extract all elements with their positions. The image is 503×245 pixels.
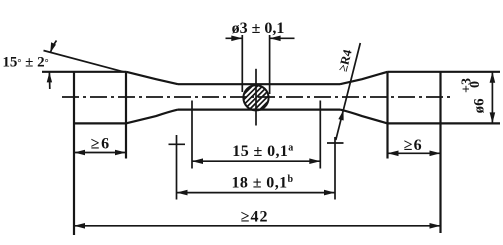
hatched cross-section circle	[231, 69, 287, 125]
>=42 right arrow	[430, 223, 441, 229]
svg-text:≥42: ≥42	[241, 209, 269, 226]
svg-text:0: 0	[468, 81, 483, 88]
top-right taper	[340, 72, 388, 84]
angle dim lower line	[48, 72, 50, 89]
narrow section top edge	[178, 83, 340, 85]
left grip right edge with extension down to >=6 dim	[125, 72, 127, 159]
svg-text:ø6: ø6	[472, 98, 488, 114]
bottom-left taper	[126, 110, 178, 124]
left grip left edge with extension down to overall dim	[73, 72, 75, 235]
dia3 dimension extension lines	[241, 35, 243, 92]
left grip bottom edge	[74, 122, 126, 124]
15-dim line	[192, 160, 320, 162]
R4 leader line	[336, 43, 361, 140]
dia6 bottom arrow	[490, 112, 496, 123]
right grip left edge with extension down to >=6 dim	[386, 72, 388, 159]
dia3 dimension line left tail	[226, 37, 243, 39]
svg-text:15° ± 2°: 15° ± 2°	[2, 55, 48, 71]
15-dim left arrow	[192, 158, 203, 164]
angle dim upper arc segment	[51, 41, 57, 53]
right grip right edge with extension down to overall dim	[439, 72, 441, 233]
svg-text:15 ± 0,1a: 15 ± 0,1a	[232, 142, 293, 160]
dia6 dim line vertical	[491, 72, 493, 124]
narrow section bottom edge	[178, 108, 340, 110]
vertical centerline through section circle	[255, 69, 257, 126]
gauge mark / 15-dim extension right	[319, 101, 321, 169]
dia3 dimension line right tail	[270, 37, 295, 39]
svg-text:≥6: ≥6	[91, 135, 111, 152]
dia3 left arrow	[231, 36, 242, 42]
>=42 left arrow	[74, 223, 85, 229]
right >=6 dim line	[388, 152, 441, 154]
gauge mark / 15-dim extension left	[191, 101, 193, 169]
left grip top edge extended left for angle	[42, 71, 126, 73]
left >=6 dim line	[74, 152, 126, 154]
15 deg construction line	[44, 51, 124, 72]
svg-text:18 ± 0,1b: 18 ± 0,1b	[232, 174, 294, 192]
18-dim extension right with tick	[334, 137, 336, 200]
18-dim left arrow	[177, 190, 188, 196]
right grip top edge extended right for dia6 dim	[388, 71, 501, 73]
dia3 right arrow	[270, 36, 281, 42]
angle dim lower arrow	[47, 72, 52, 82]
18-dim extension left with tick	[176, 135, 178, 200]
15-dim right arrow	[309, 158, 320, 164]
bottom-right taper	[340, 110, 388, 124]
horizontal centerline	[62, 96, 450, 98]
overall >=42 dim line	[74, 225, 441, 227]
angle dim upper arrow	[50, 42, 56, 52]
18-dim right arrow	[324, 190, 335, 196]
svg-text:≥6: ≥6	[404, 137, 423, 154]
18-dim line	[177, 192, 336, 194]
svg-text:ø3 ± 0,1: ø3 ± 0,1	[232, 20, 285, 37]
dia6 top arrow	[490, 72, 496, 83]
top-left taper	[126, 72, 178, 84]
right grip bottom edge extended right for dia6 dim	[388, 122, 501, 124]
R4 leader arrow	[338, 110, 343, 121]
